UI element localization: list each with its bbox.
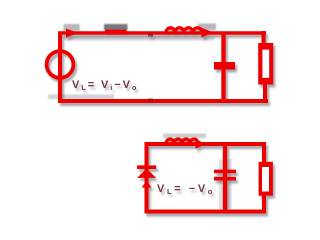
artifact strip below top wire — [64, 37, 214, 41]
wire load stub top (bottom circuit) — [262, 142, 266, 165]
wire left vertical (diode branch) — [145, 142, 149, 212]
switch S (closed, gray block) — [104, 24, 128, 31]
artifact box above current arrow — [64, 24, 80, 31]
wire load stub top — [262, 31, 266, 46]
load resistor R (top circuit) — [258, 43, 273, 85]
current arrow after L (bottom, pointing right) — [196, 139, 207, 148]
artifact halo above bottom inductor — [163, 134, 206, 139]
inductor L (top circuit) — [166, 28, 202, 33]
wire load stub bottom — [263, 82, 267, 103]
wire load stub bottom (bottom circuit) — [262, 193, 266, 213]
wire top (input rail) — [58, 30, 266, 35]
wire top-left vertical (source branch) — [58, 33, 62, 101]
svg-text:VL= Vi−Vo: VL= Vi−Vo — [72, 79, 138, 92]
wire top (off-state loop) — [147, 142, 265, 146]
wire bottom (off-state return) — [145, 210, 267, 214]
current arrow through diode (pointing up) — [142, 180, 152, 188]
node: diode branch junction (bottom rail) — [148, 99, 153, 102]
capacitor C branch wire (top circuit) — [221, 33, 225, 101]
artifact strip above bottom rail (left) — [48, 95, 114, 100]
load resistor R (bottom circuit) — [259, 162, 273, 196]
capacitor C branch wire (bottom circuit) — [223, 144, 227, 212]
capacitor C (top circuit, thick bar) — [214, 62, 235, 70]
capacitor C plates (bottom circuit) — [214, 170, 236, 181]
wire bottom (return rail) — [58, 99, 268, 103]
artifact box above arrow after inductor — [198, 24, 216, 31]
diode D cathode bar — [137, 165, 156, 169]
label VL = Vi - Vo (on-state) — [72, 79, 138, 92]
inductor L (bottom circuit) — [166, 139, 198, 144]
artifact band around bottom capacitor — [219, 159, 232, 209]
diode D triangle — [137, 169, 156, 178]
node: diode branch junction (top rail) — [148, 34, 153, 37]
label VL = -Vo (off-state) — [157, 183, 215, 196]
svg-text:VL= −Vo: VL= −Vo — [157, 183, 215, 196]
current arrow after L (pointing right) — [202, 28, 214, 38]
voltage source Vi — [47, 51, 74, 78]
current arrow i (top left, pointing right) — [66, 29, 79, 38]
